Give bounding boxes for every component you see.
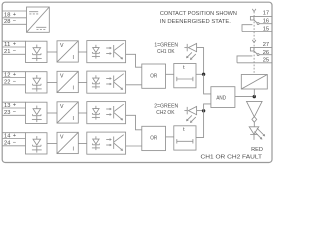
zener barrier diode VR1 xyxy=(26,41,48,62)
svg-text:15: 15 xyxy=(263,26,269,32)
mechanical link (dashed) xyxy=(253,12,255,75)
terminal 26 xyxy=(259,50,272,56)
wire xyxy=(78,82,87,84)
terminal 13 (+) xyxy=(2,102,26,109)
svg-text:22: 22 xyxy=(4,80,10,86)
label RED xyxy=(251,147,263,153)
terminal 22 (-) xyxy=(2,79,26,85)
wire xyxy=(47,51,57,53)
relay contact K1b xyxy=(250,40,259,56)
svg-text:21: 21 xyxy=(4,49,10,55)
timer U9 (t) xyxy=(174,126,196,150)
svg-text:I: I xyxy=(73,146,74,152)
svg-text:V: V xyxy=(60,104,64,110)
svg-text:23: 23 xyxy=(4,110,10,116)
wire xyxy=(253,89,255,97)
terminal 15 xyxy=(242,25,272,33)
wire xyxy=(47,143,57,145)
terminal 12 (+) xyxy=(2,72,26,79)
terminal 27 xyxy=(254,42,272,48)
label 1=GREEN xyxy=(154,43,178,49)
wire xyxy=(47,112,57,114)
relay contact K1a xyxy=(250,9,259,25)
optocoupler U3b xyxy=(87,102,126,124)
svg-text:11: 11 xyxy=(4,42,10,48)
svg-text:I: I xyxy=(73,116,74,122)
wire xyxy=(78,143,87,145)
wire xyxy=(253,122,255,127)
svg-text:27: 27 xyxy=(263,42,269,48)
timer U8 (t) xyxy=(174,64,196,88)
svg-text:25: 25 xyxy=(263,57,269,63)
terminal 23 (-) xyxy=(2,110,26,116)
label 2=GREEN xyxy=(154,104,178,110)
terminal 11 (+) xyxy=(2,41,26,48)
svg-text:CH2 OK: CH2 OK xyxy=(156,110,175,116)
svg-text:2=GREEN: 2=GREEN xyxy=(154,104,178,110)
wire xyxy=(197,110,204,112)
svg-text:CONTACT POSITION SHOWN: CONTACT POSITION SHOWN xyxy=(160,11,237,17)
V/I converter U2a xyxy=(57,71,78,92)
svg-text:CH1 OR CH2 FAULT: CH1 OR CH2 FAULT xyxy=(201,155,263,161)
V/I converter U1a xyxy=(57,41,78,62)
svg-text:V: V xyxy=(60,74,64,80)
svg-text:IN DEENERGISED STATE.: IN DEENERGISED STATE. xyxy=(160,19,231,25)
wire xyxy=(235,96,254,98)
terminal 18 (+) power xyxy=(2,11,27,18)
svg-text:V: V xyxy=(60,135,64,141)
svg-text:1=GREEN: 1=GREEN xyxy=(154,43,178,49)
note line 2 xyxy=(160,19,231,25)
zener barrier diode VR2 xyxy=(26,72,48,93)
terminal 25 xyxy=(237,56,272,64)
wire xyxy=(166,136,174,138)
wire xyxy=(126,115,142,130)
label CH1 OR CH2 FAULT xyxy=(201,155,263,161)
svg-text:12: 12 xyxy=(4,72,10,78)
OR gate U7 xyxy=(142,126,166,150)
svg-text:AND: AND xyxy=(216,95,226,101)
svg-text:RED: RED xyxy=(251,147,263,153)
inverter U11 xyxy=(247,101,263,122)
wire xyxy=(126,145,142,147)
AND gate U10 xyxy=(211,87,235,108)
zener barrier diode VR3 xyxy=(26,102,48,123)
wire xyxy=(166,73,174,75)
terminal 28 (-) power xyxy=(2,19,27,25)
wire xyxy=(78,51,87,53)
label CH1 OK xyxy=(157,49,175,55)
svg-text:CH1 OK: CH1 OK xyxy=(157,49,175,55)
wire xyxy=(78,112,87,114)
note line 1 xyxy=(160,11,237,17)
OR gate U6 xyxy=(142,64,166,88)
svg-text:17: 17 xyxy=(263,11,269,17)
V/I converter U3a xyxy=(57,102,78,123)
zener barrier diode VR4 xyxy=(26,133,48,154)
terminal 24 (-) xyxy=(2,140,26,146)
optocoupler U1b xyxy=(87,41,126,63)
wire xyxy=(47,82,57,84)
svg-text:I: I xyxy=(73,85,74,91)
wire xyxy=(197,48,204,75)
junction xyxy=(253,95,256,98)
wire xyxy=(196,73,204,75)
wire xyxy=(196,111,204,138)
terminal 21 (-) xyxy=(2,49,26,55)
V/I converter U4a xyxy=(57,132,78,153)
svg-text:OR: OR xyxy=(150,73,157,79)
svg-text:I: I xyxy=(73,55,74,61)
terminal 14 (+) xyxy=(2,133,26,140)
optocoupler U4b xyxy=(87,132,126,154)
LED L1 (green, CH1 OK) xyxy=(184,44,196,60)
svg-text:13: 13 xyxy=(4,103,10,109)
relay driver K1 xyxy=(241,75,267,90)
svg-text:16: 16 xyxy=(263,19,269,25)
LED L2 (green, CH2 OK) xyxy=(184,107,196,123)
power supply U5 (DC/DC converter) xyxy=(27,7,50,32)
svg-text:28: 28 xyxy=(4,19,10,25)
optocoupler U2b xyxy=(87,71,126,93)
svg-text:26: 26 xyxy=(263,50,269,56)
junction xyxy=(202,73,205,76)
label CH2 OK xyxy=(156,110,175,116)
svg-text:14: 14 xyxy=(4,133,11,139)
wire xyxy=(126,54,142,67)
terminal 17 xyxy=(254,11,272,17)
svg-text:18: 18 xyxy=(4,12,10,18)
junction xyxy=(202,109,205,112)
svg-text:OR: OR xyxy=(150,136,157,142)
wire xyxy=(204,74,211,94)
wire xyxy=(204,104,211,111)
svg-text:V: V xyxy=(60,43,64,49)
svg-text:24: 24 xyxy=(4,141,11,147)
LED L3 (red, fault) xyxy=(249,127,264,140)
terminal 16 xyxy=(259,19,272,25)
wire xyxy=(126,84,142,86)
